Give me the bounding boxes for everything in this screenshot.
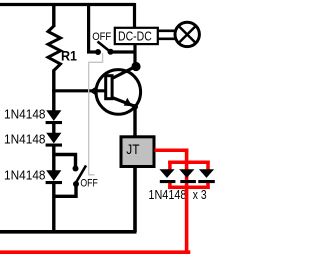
svg-text:1N4148: 1N4148	[148, 187, 186, 202]
wire top rail	[0, 3, 135, 6]
red stub D6 anode	[206, 161, 210, 172]
lamp X1	[175, 22, 199, 46]
emitter arrow	[124, 98, 133, 106]
resistor R1	[48, 26, 61, 71]
diode D3	[46, 170, 61, 181]
svg-text:DC-DC: DC-DC	[118, 29, 152, 44]
JT box	[121, 137, 154, 167]
emitter lead	[112, 98, 135, 107]
wire top rail to DC-DC	[133, 3, 136, 28]
collector lead	[112, 67, 136, 79]
diode D6	[199, 169, 214, 178]
red stub D4 anode	[168, 161, 172, 172]
wire top switch drop	[87, 3, 90, 52]
wire DC-DC to collector node	[133, 44, 136, 64]
DC-DC converter box	[115, 28, 158, 44]
svg-text:OFF: OFF	[92, 31, 111, 43]
switch S2 (bottom OFF)	[73, 166, 79, 172]
transistor Q1	[96, 70, 141, 115]
wire resistor to diode D1	[52, 70, 55, 113]
base arrow	[90, 86, 97, 95]
red vertical bus drop	[185, 149, 189, 253]
wire JT to bottom rail	[133, 166, 137, 232]
diode D2	[46, 133, 61, 144]
wire bottom black rail	[0, 230, 137, 234]
svg-text:1N4148: 1N4148	[4, 131, 46, 146]
svg-text:R1: R1	[61, 47, 77, 63]
diode D5	[179, 169, 194, 178]
wire left vertical to resistor	[52, 3, 55, 27]
node collector junction	[131, 62, 140, 71]
wire D3 to bottom rail	[52, 184, 55, 232]
svg-text:x 3: x 3	[193, 187, 207, 202]
wire switch to collector node	[112, 50, 136, 53]
svg-text:OFF: OFF	[80, 177, 98, 189]
mechanical link (gray)	[89, 53, 103, 175]
red bottom bus	[168, 186, 210, 190]
svg-text:1N4148: 1N4148	[4, 106, 46, 121]
red stub D4 cathode	[168, 182, 172, 190]
wire switch branch upper	[53, 155, 76, 169]
wire D2 to D3	[52, 146, 55, 171]
node emitter junction	[132, 104, 138, 110]
diode D1	[46, 110, 61, 121]
red stub D6 cathode	[206, 182, 210, 190]
wire D1 to D2	[52, 123, 55, 134]
wire switch branch lower	[53, 184, 77, 196]
svg-text:JT: JT	[126, 141, 140, 157]
lamp leads	[158, 29, 177, 32]
red bottom rail	[0, 250, 190, 254]
wire base branch	[52, 89, 104, 92]
svg-text:1N4148: 1N4148	[4, 167, 46, 182]
red wire JT to bus	[155, 149, 189, 153]
diode D4	[159, 169, 174, 178]
wire emitter to JT	[133, 106, 136, 137]
red top bus	[168, 160, 210, 164]
